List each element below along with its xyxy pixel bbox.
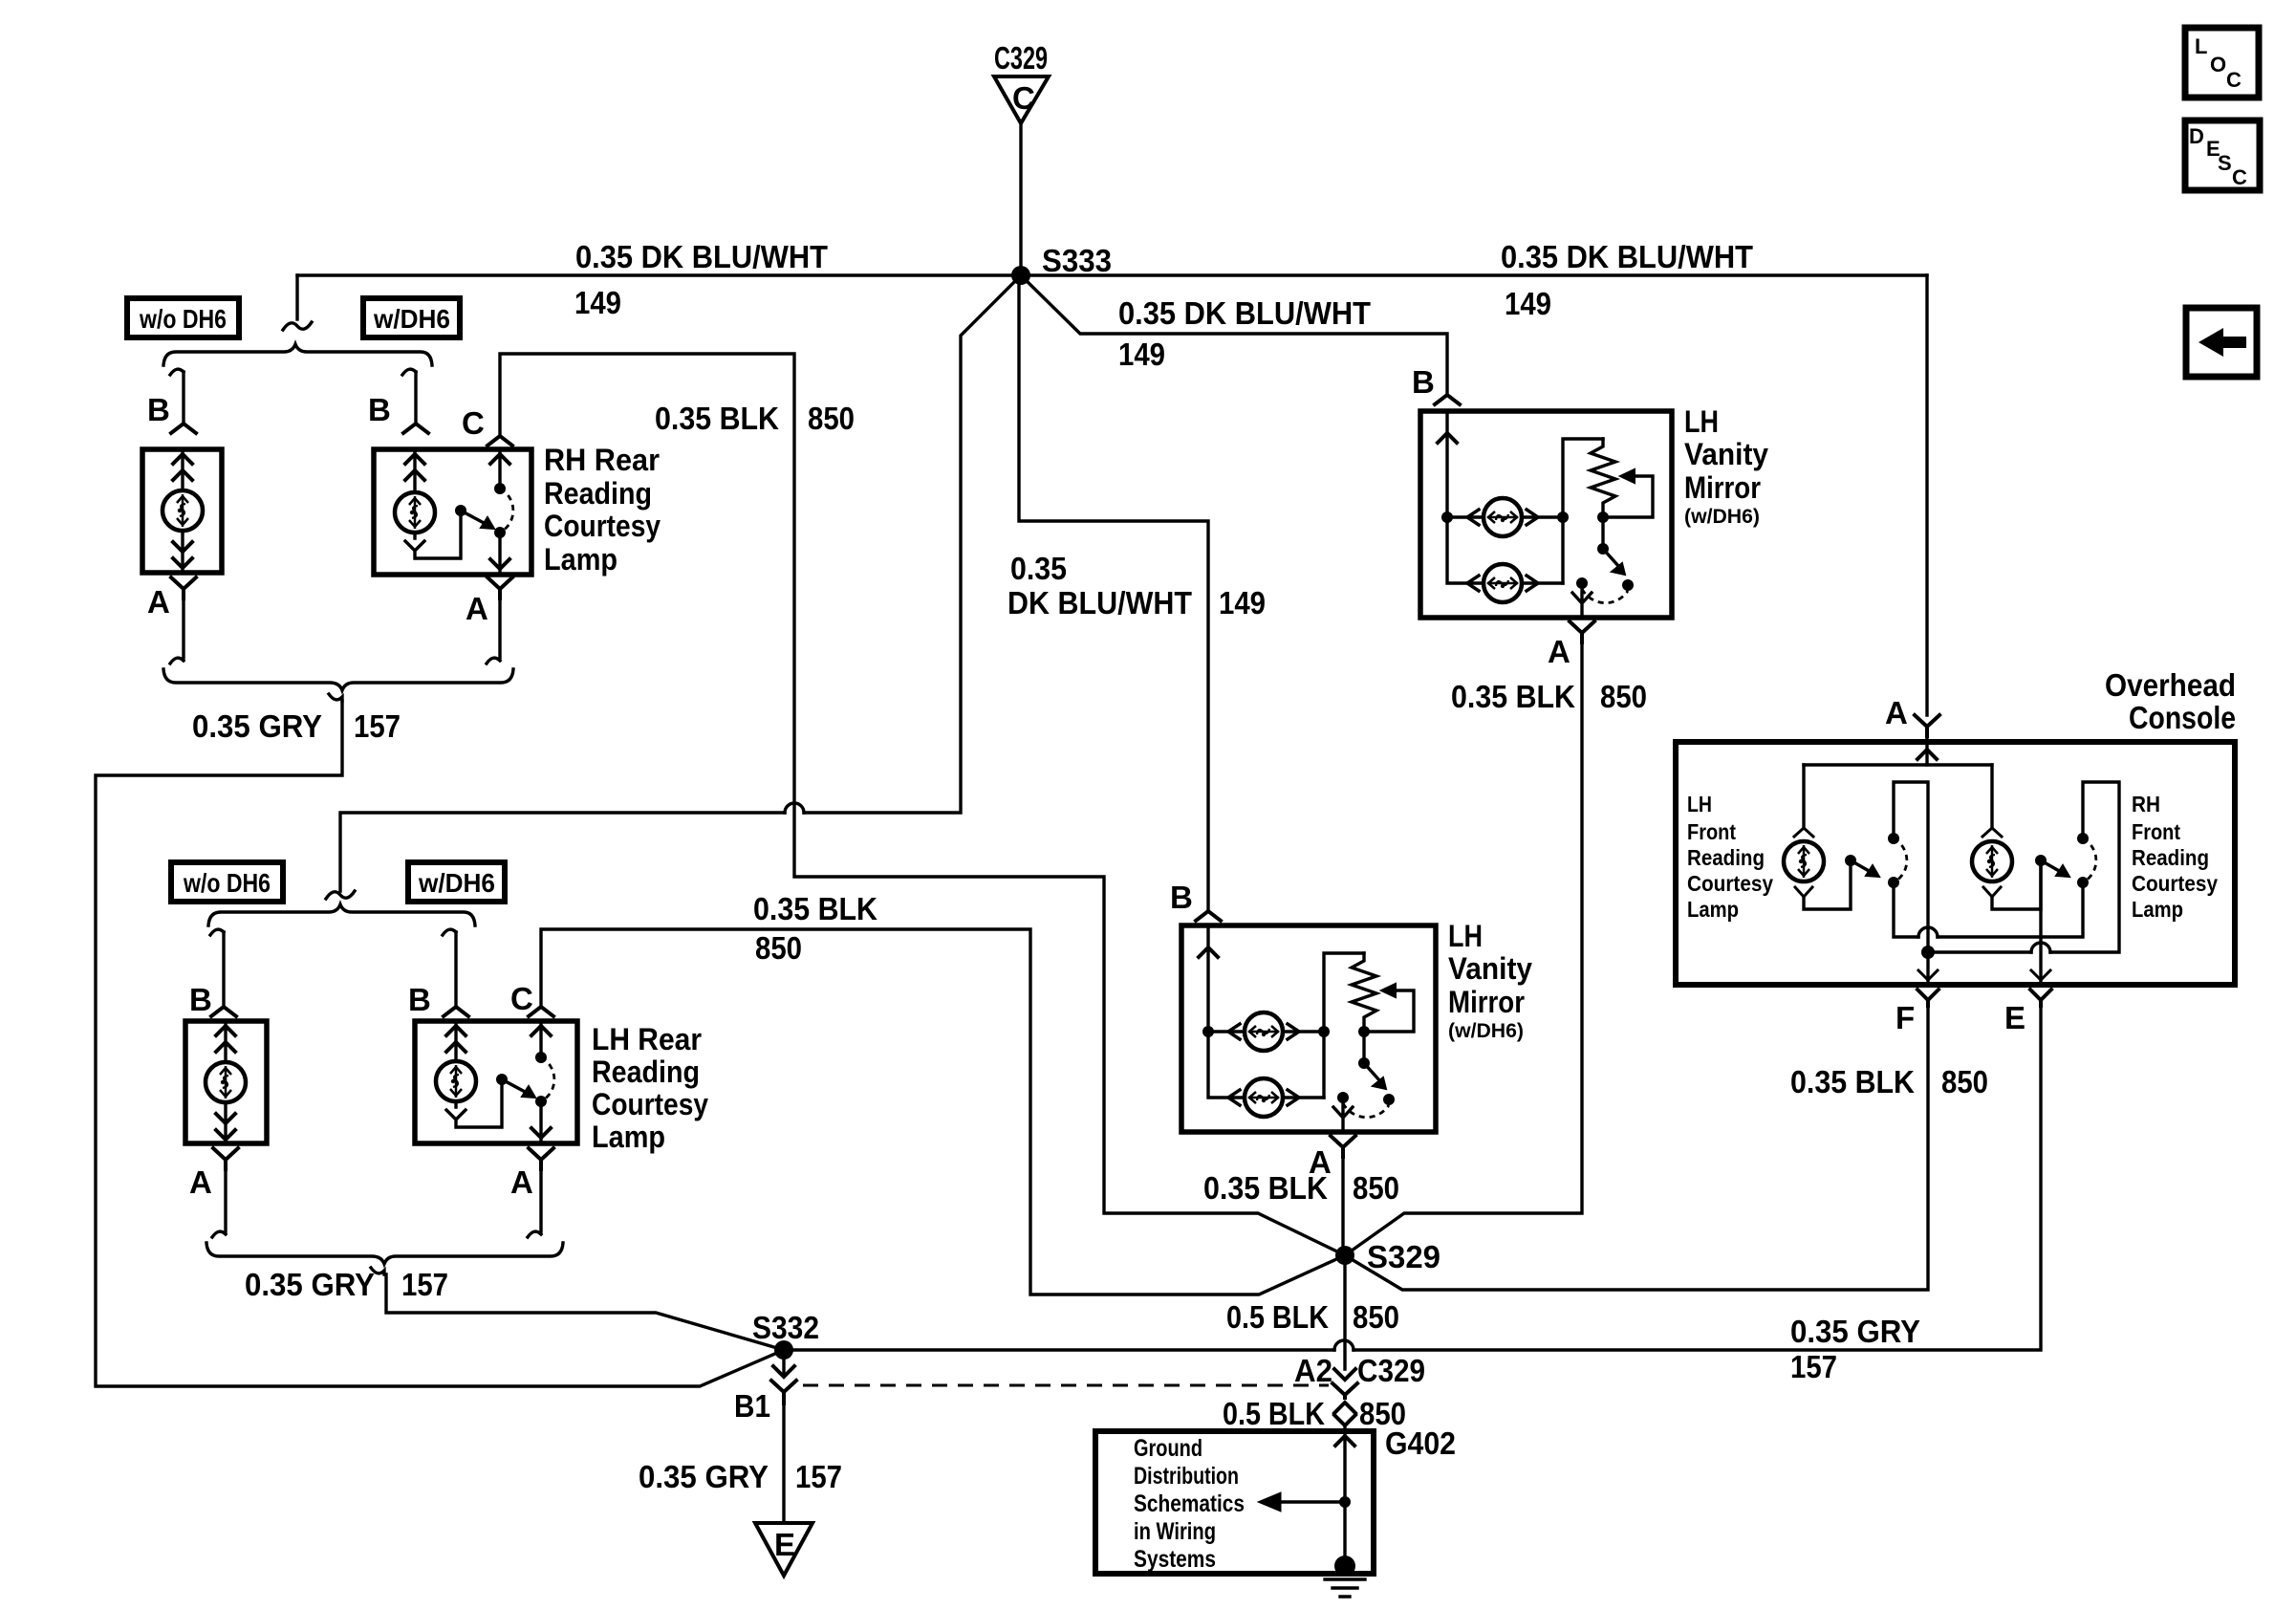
wire to B pin w/o lamp [182,372,184,424]
wire S329 to F pin of console [1345,1006,1928,1290]
svg-text:Reading: Reading [2132,845,2209,870]
console F exit wire [1918,952,1938,982]
svg-text:A2: A2 [1294,1353,1332,1388]
wire drop from main line to option brace [295,275,298,319]
RH rear w/DH6 lamp internals [395,452,513,572]
svg-text:S329: S329 [1367,1239,1440,1274]
svg-text:149: 149 [1118,337,1165,372]
svg-text:Reading: Reading [544,476,652,511]
svg-text:C: C [462,405,485,441]
svg-text:0.35 BLK: 0.35 BLK [1203,1170,1328,1206]
svg-text:Courtesy: Courtesy [592,1087,708,1121]
svg-text:in Wiring: in Wiring [1134,1518,1216,1545]
console LH switch lower contact wire to RH contact [1894,882,2083,937]
pin B1 connector [734,1350,796,1424]
DESC icon box [2185,120,2260,190]
svg-text:Mirror: Mirror [1448,985,1525,1019]
LH rear w/DH6 lamp internals [436,1024,554,1141]
svg-text:0.35 BLK: 0.35 BLK [753,891,877,926]
pin A w/o LH lamp [189,1148,238,1200]
label 0.35 BLK 850 mid [753,891,877,966]
svg-text:C: C [2226,68,2242,92]
pin A w/DH6 LH lamp [510,1148,553,1200]
wire to B pin w/DH6 LH lamp [454,932,457,1007]
wire center vanity A to S329 [1341,1157,1344,1255]
console E exit wire [2031,866,2050,982]
svg-text:C: C [2232,165,2247,189]
svg-text:149: 149 [1505,286,1551,321]
svg-text:0.5 BLK: 0.5 BLK [1226,1299,1329,1335]
svg-text:157: 157 [401,1267,448,1302]
svg-text:0.35: 0.35 [1010,551,1067,586]
SPLICE S329 [1335,1239,1440,1274]
svg-text:0.35 BLK: 0.35 BLK [1451,679,1575,714]
wire hop over BLK wire [785,803,804,813]
svg-text:Distribution: Distribution [1134,1463,1239,1490]
wire S333 down to LH vanity mirror B [1019,280,1208,911]
dashed connector line C329 [803,1384,1329,1387]
svg-text:Reading: Reading [1687,845,1765,870]
G402 internal wire [1258,1434,1354,1566]
RH rear courtesy lamp w/o DH6 box [142,449,222,573]
svg-text:B: B [1412,364,1435,400]
svg-text:B: B [408,982,431,1017]
option box w/DH6 lower [408,862,505,902]
LH vanity mirror box center [1181,925,1436,1132]
pin E console [2004,990,2051,1035]
label 0.35 GRY 157 long wire [1790,1314,1920,1384]
svg-text:0.35 DK BLU/WHT: 0.35 DK BLU/WHT [575,239,828,274]
svg-text:(w/DH6): (w/DH6) [1684,506,1760,528]
svg-text:E: E [774,1527,795,1562]
svg-text:D: D [2189,124,2204,148]
svg-text:RH Rear: RH Rear [544,443,660,477]
svg-text:S333: S333 [1042,243,1112,278]
svg-text:850: 850 [755,930,802,966]
svg-text:A: A [147,584,170,620]
LOC icon box [2185,28,2259,98]
RH rear w/o lamp internals [162,452,203,570]
option box w/DH6 [363,298,460,337]
pin F console [1895,990,1939,1035]
pin B female w/o [171,424,196,433]
svg-text:G402: G402 [1385,1425,1456,1461]
svg-text:RH: RH [2132,792,2160,816]
connector C329 top triangle [994,40,1049,123]
svg-text:E: E [2004,1000,2025,1035]
pigtail under brace [329,694,342,701]
svg-text:0.35 DK BLU/WHT: 0.35 DK BLU/WHT [1118,295,1371,331]
wire S333 to top LH vanity mirror B [1021,275,1447,395]
ground brace under RH rear lamps [163,669,513,690]
svg-text:850: 850 [1353,1299,1399,1335]
label RH Front Reading Courtesy Lamp [2132,792,2218,922]
svg-text:0.35 GRY: 0.35 GRY [192,708,322,744]
console RH switch [2035,833,2096,888]
console RH switch upper contact to E-side drop [1935,782,2119,952]
console LH switch upper contact to F drop [1894,782,1928,952]
svg-text:B: B [189,982,212,1017]
svg-text:Lamp: Lamp [1687,897,1739,922]
pigtail under LH brace [371,1268,384,1274]
wire break hook lower [326,891,355,899]
svg-text:149: 149 [1219,585,1266,620]
wire S332 long horizontal to E pin of console [784,1006,2041,1350]
pin C female w/DH6 LH [529,1007,553,1016]
svg-text:S332: S332 [752,1310,819,1345]
console LH switch [1845,833,1907,888]
wire A down to brace [528,1169,541,1237]
svg-text:850: 850 [1941,1064,1988,1099]
svg-text:LH: LH [1684,404,1719,439]
svg-text:Mirror: Mirror [1684,470,1761,505]
label 0.35 DK BLU/WHT 149 right [1501,239,1753,321]
ground brace under LH rear lamps [206,1243,563,1264]
pin A console [1885,695,1939,736]
wire A down to ground brace right [487,598,500,664]
svg-text:DK BLU/WHT: DK BLU/WHT [1007,585,1192,620]
wire main line down to console A [1925,275,1928,715]
svg-text:LH Rear: LH Rear [592,1022,702,1056]
wire hop over A2 wire [1334,1340,1354,1350]
pin C female w/DH6 [487,436,512,446]
svg-text:C: C [1012,80,1035,116]
svg-text:Courtesy: Courtesy [2132,871,2218,896]
pin B female w/DH6 [403,424,428,433]
svg-text:Front: Front [2132,819,2180,844]
back arrow icon box [2186,308,2257,377]
svg-text:Front: Front [1687,819,1736,844]
wire S329 down to A2 [1343,1255,1346,1369]
pin A top vanity [1548,621,1594,669]
svg-text:850: 850 [808,401,855,436]
console A entry wire [1804,736,1992,765]
svg-text:w/o DH6: w/o DH6 [139,304,227,334]
pin B female center vanity [1196,911,1221,921]
console RH front lamp [1972,765,2041,909]
pin A center vanity [1309,1136,1355,1180]
top vanity internals [1438,414,1653,615]
label LH Vanity Mirror top [1684,404,1768,528]
svg-text:0.5 BLK: 0.5 BLK [1223,1396,1325,1431]
svg-text:w/DH6: w/DH6 [373,304,450,334]
svg-text:Overhead: Overhead [2105,667,2236,703]
svg-text:(w/DH6): (w/DH6) [1448,1020,1524,1042]
label 0.35 BLK 850 center vanity [1203,1170,1399,1206]
svg-text:w/DH6: w/DH6 [418,868,495,898]
svg-text:0.35 BLK: 0.35 BLK [1790,1064,1915,1099]
wire S333 diagonal and drop to LH rear section [340,275,1021,891]
svg-text:Ground: Ground [1134,1435,1202,1462]
brace over RH rear lamp options [163,344,432,365]
svg-text:157: 157 [354,708,401,744]
pigtail left RH rear [170,369,184,375]
svg-text:Lamp: Lamp [544,542,617,577]
wire hop LH-RH contact over F drop [1918,927,1938,937]
svg-text:Vanity: Vanity [1684,437,1768,471]
center vanity internals [1199,928,1414,1129]
svg-text:B: B [147,392,170,427]
svg-text:A: A [1885,695,1908,730]
pigtail right LH rear [443,929,456,935]
svg-text:A: A [466,591,488,626]
svg-text:Lamp: Lamp [592,1120,665,1154]
RH rear courtesy lamp w/DH6 box [374,449,531,575]
svg-text:A: A [189,1164,212,1200]
label RH Rear Reading Courtesy Lamp [544,443,661,577]
svg-text:B: B [1170,880,1193,915]
svg-text:850: 850 [1353,1170,1399,1206]
svg-text:Lamp: Lamp [2132,897,2183,922]
svg-text:F: F [1895,1000,1915,1035]
label 0.35 GRY 157 top [192,708,401,744]
console LH front lamp [1784,765,1851,909]
svg-text:Vanity: Vanity [1448,951,1532,986]
svg-text:149: 149 [574,285,621,320]
wire to B pin w/DH6 lamp [414,372,417,424]
LH rear courtesy lamp w/DH6 box [415,1021,577,1143]
svg-text:850: 850 [1600,679,1647,714]
svg-text:C329: C329 [994,40,1048,76]
label 0.35 DK BLU/WHT 149 left [574,239,828,320]
svg-text:Courtesy: Courtesy [1687,871,1773,896]
pin B female w/DH6 LH [444,1007,468,1016]
label 0.35 GRY 157 bottom [639,1459,842,1494]
svg-text:C329: C329 [1357,1353,1425,1388]
wire break hook [283,322,312,330]
label LH Front Reading Courtesy Lamp [1687,792,1773,922]
svg-text:0.35 DK BLU/WHT: 0.35 DK BLU/WHT [1501,239,1753,274]
svg-text:Schematics: Schematics [1134,1490,1245,1517]
label 0.5 BLK 850 [1226,1299,1399,1335]
svg-text:A: A [510,1164,533,1200]
svg-text:Reading: Reading [592,1055,700,1089]
pin B female top vanity [1435,395,1460,404]
wire A down to ground brace [170,598,184,664]
label Overhead Console [2105,667,2236,735]
svg-text:Console: Console [2129,700,2236,735]
svg-text:Systems: Systems [1134,1546,1216,1573]
svg-text:w/o DH6: w/o DH6 [183,868,271,898]
brace over LH rear lamp options [208,904,475,925]
console F junction dot [1921,946,1935,959]
svg-text:LH: LH [1448,919,1483,953]
G402 GROUND BOX [1095,1425,1456,1574]
svg-text:Courtesy: Courtesy [544,509,661,543]
label 0.35 GRY 157 lower [245,1267,448,1302]
wire C329 to S333 [1019,123,1022,275]
pigtail right RH rear [402,369,416,375]
wire top vanity A to S329 [1345,642,1582,1255]
wire B1 to ground E [782,1403,785,1523]
svg-text:157: 157 [1790,1349,1837,1384]
ground symbol G402 [1325,1556,1365,1597]
label 0.5 BLK 850 lower [1223,1396,1406,1431]
svg-text:B: B [368,392,391,427]
svg-text:C: C [510,981,533,1016]
label LH Vanity Mirror center [1448,919,1532,1042]
svg-text:0.35 GRY: 0.35 GRY [245,1267,375,1302]
svg-text:LH: LH [1687,792,1712,816]
svg-text:B1: B1 [734,1388,770,1424]
wire to B pin w/o LH lamp [222,932,225,1007]
SPLICE S332 [752,1310,819,1360]
LH rear courtesy lamp w/o DH6 box [185,1021,267,1143]
svg-text:0.35 BLK: 0.35 BLK [655,401,779,436]
pigtail left LH rear [210,929,224,935]
label 0.35 BLK 850 top vanity [1451,679,1647,714]
label LH Rear Reading Courtesy Lamp [592,1022,708,1154]
label 0.35 DK BLU/WHT 149 upper mid [1118,295,1371,372]
pin A w/DH6 lamp [466,577,512,626]
LH vanity mirror box top [1420,411,1672,618]
svg-text:A: A [1548,634,1570,669]
svg-text:S: S [2218,151,2232,175]
svg-text:O: O [2210,53,2226,76]
pin A w/o lamp [147,577,196,620]
svg-text:0.35 GRY: 0.35 GRY [639,1459,769,1494]
wire A down to brace [212,1169,226,1237]
svg-text:L: L [2195,34,2207,58]
G402 text [1134,1435,1245,1573]
splice S333 [1011,243,1112,285]
wire GRY 157 to S332 [96,701,784,1386]
wire GRY 157 lower to S332 [386,1274,784,1350]
LH rear w/o lamp internals [206,1024,246,1141]
ground E triangle [755,1523,812,1576]
svg-text:157: 157 [795,1459,842,1494]
pin B female w/o LH [211,1007,236,1016]
svg-text:0.35 GRY: 0.35 GRY [1790,1314,1920,1349]
label 0.35 DK BLU/WHT 149 center [1007,551,1266,620]
wire hop F-wire over E drop [2031,943,2050,952]
label 0.35 BLK 850 F wire [1790,1064,1988,1099]
pin A2 connector C329 [1294,1353,1425,1431]
option box w/o DH6 lower [171,862,283,902]
option box w/o DH6 [127,298,239,337]
wire 0.35 BLK 850 from RH rear C pin to S329 [500,354,1345,1255]
wire main horizontal circuit 149 [297,273,1927,276]
overhead console box [1676,742,2235,985]
label 0.35 BLK 850 top [655,401,855,436]
wire 0.35 BLK 850 from LH rear C pin to S329 [541,929,1345,1295]
